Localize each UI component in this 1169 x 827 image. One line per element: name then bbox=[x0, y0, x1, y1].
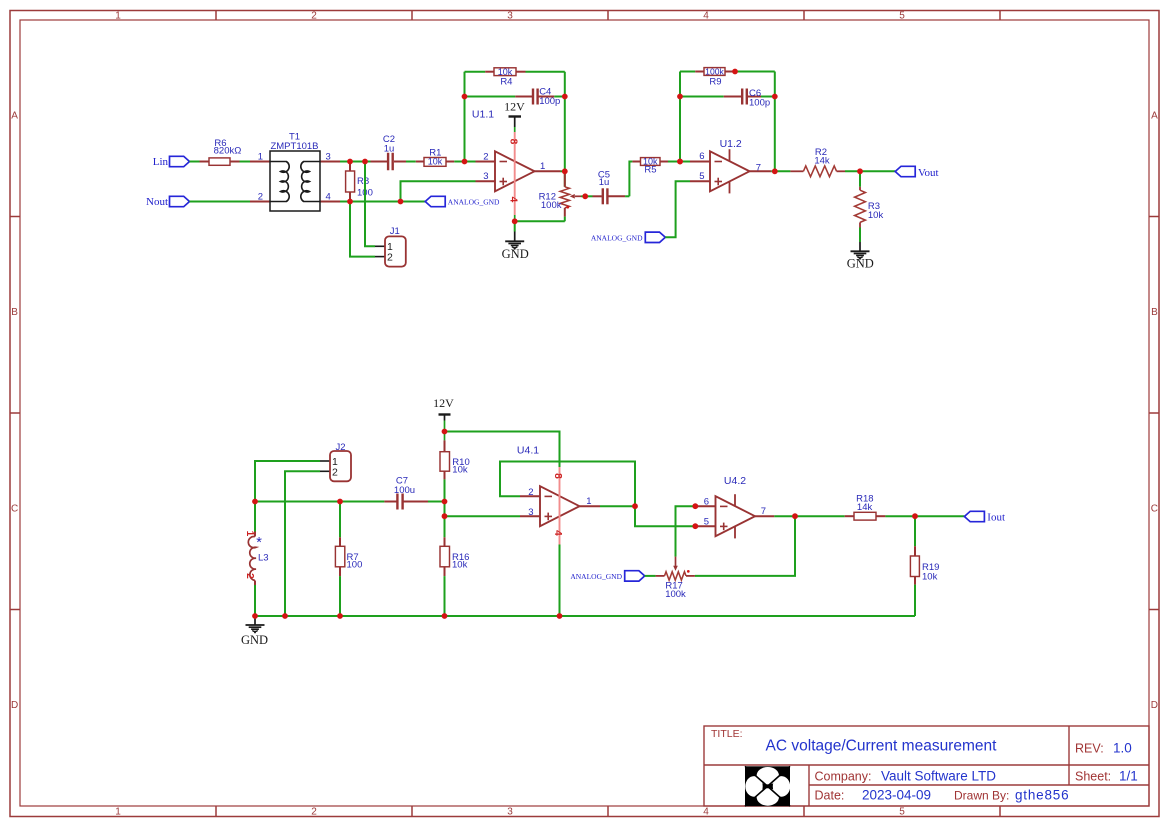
svg-text:Lin: Lin bbox=[153, 156, 169, 168]
resistor R2 bbox=[790, 170, 803, 172]
svg-text:Vout: Vout bbox=[918, 167, 939, 179]
svg-text:Nout: Nout bbox=[146, 196, 168, 208]
resistor R8 bbox=[349, 162, 351, 172]
svg-text:100p: 100p bbox=[539, 96, 560, 107]
svg-text:R5: R5 bbox=[644, 164, 656, 175]
svg-text:2: 2 bbox=[528, 487, 533, 498]
wire bbox=[845, 170, 895, 172]
svg-text:820kΩ: 820kΩ bbox=[214, 145, 242, 156]
svg-text:8: 8 bbox=[552, 473, 563, 479]
node junction bbox=[337, 613, 343, 619]
resistor R10 bbox=[444, 440, 446, 451]
node junction bbox=[677, 94, 683, 100]
wire bbox=[914, 585, 916, 616]
wire bbox=[255, 501, 384, 503]
op-amp U1.1 bbox=[495, 151, 535, 191]
svg-text:1u: 1u bbox=[384, 143, 395, 154]
svg-text:R8: R8 bbox=[357, 176, 369, 187]
ground bbox=[505, 240, 524, 242]
svg-text:100u: 100u bbox=[394, 485, 415, 496]
svg-text:100: 100 bbox=[347, 559, 363, 570]
svg-text:Date:: Date: bbox=[815, 788, 845, 802]
wire bbox=[859, 228, 861, 243]
node junction bbox=[462, 94, 468, 100]
node junction bbox=[732, 69, 738, 75]
wire bbox=[500, 462, 695, 527]
wire bbox=[444, 479, 446, 501]
svg-text:ANALOG_GND: ANALOG_GND bbox=[448, 198, 500, 207]
wire bbox=[190, 201, 251, 203]
svg-text:R4: R4 bbox=[500, 76, 512, 87]
node junction bbox=[857, 168, 863, 174]
node junction bbox=[677, 159, 683, 165]
node junction bbox=[398, 199, 404, 205]
op-amp U4.2 pin 6 bbox=[695, 505, 715, 507]
svg-text:Company:: Company: bbox=[815, 769, 872, 783]
wire bbox=[190, 161, 251, 163]
svg-text:3: 3 bbox=[326, 151, 331, 162]
svg-text:C: C bbox=[11, 504, 18, 515]
ground bbox=[246, 624, 265, 626]
node junction bbox=[442, 513, 448, 519]
node junction bbox=[347, 159, 353, 165]
op-amp U1.1 pin 1 output bbox=[535, 170, 561, 172]
transformer T1 ZMPT101B bbox=[250, 161, 270, 163]
svg-text:7: 7 bbox=[756, 162, 761, 173]
svg-text:J2: J2 bbox=[335, 442, 345, 453]
svg-text:10k: 10k bbox=[922, 571, 938, 582]
svg-text:4: 4 bbox=[552, 530, 563, 536]
svg-text:2: 2 bbox=[332, 466, 338, 478]
svg-text:2: 2 bbox=[387, 252, 393, 264]
wire bbox=[401, 181, 476, 201]
node junction bbox=[282, 613, 288, 619]
svg-text:J1: J1 bbox=[390, 226, 400, 237]
resistor R17 potentiometer bbox=[645, 575, 656, 577]
wire feedback top bbox=[465, 71, 486, 73]
svg-text:Vault Software LTD: Vault Software LTD bbox=[881, 768, 996, 783]
wire feedback right vertical bbox=[774, 72, 776, 172]
svg-text:Iout: Iout bbox=[987, 512, 1005, 524]
wire bbox=[340, 201, 425, 203]
svg-text:1: 1 bbox=[244, 531, 255, 537]
op-amp U1.1 pin 8 bbox=[514, 132, 516, 191]
wire bbox=[340, 161, 371, 163]
svg-text:14k: 14k bbox=[814, 156, 830, 167]
node junction bbox=[512, 218, 518, 224]
svg-text:1: 1 bbox=[115, 807, 121, 818]
wire bbox=[350, 202, 375, 257]
wire bbox=[365, 162, 375, 247]
svg-text:U4.2: U4.2 bbox=[724, 475, 746, 487]
svg-text:1: 1 bbox=[540, 161, 545, 172]
node junction bbox=[677, 159, 683, 165]
svg-text:gthe856: gthe856 bbox=[1015, 788, 1069, 803]
net flag ANALOG_GND bbox=[625, 571, 645, 581]
wire feedback left vertical bbox=[679, 72, 681, 162]
svg-text:4: 4 bbox=[507, 197, 518, 203]
wire bbox=[454, 161, 475, 163]
svg-text:100k: 100k bbox=[665, 589, 686, 600]
wire bbox=[665, 181, 690, 237]
op-amp U4.1 pin 2 bbox=[520, 495, 540, 497]
node junction bbox=[772, 168, 778, 174]
node junction bbox=[347, 199, 353, 205]
svg-text:10k: 10k bbox=[452, 465, 468, 476]
node junction bbox=[442, 613, 448, 619]
port Vout bbox=[895, 166, 915, 176]
op-amp U1.2 pin 6 bbox=[690, 161, 710, 163]
svg-text:GND: GND bbox=[847, 256, 874, 270]
svg-text:3: 3 bbox=[528, 507, 533, 518]
op-amp U4.2 pin 5 bbox=[695, 525, 715, 527]
wire bbox=[285, 471, 320, 616]
svg-text:A: A bbox=[11, 111, 18, 122]
svg-text:8: 8 bbox=[507, 139, 518, 145]
svg-text:L3: L3 bbox=[258, 552, 269, 563]
svg-text:ZMPT101B: ZMPT101B bbox=[270, 141, 318, 152]
wire bbox=[406, 161, 416, 163]
wire bbox=[339, 576, 341, 616]
capacitor C7 bbox=[384, 501, 396, 503]
resistor R7 bbox=[339, 502, 341, 538]
node junction bbox=[772, 94, 778, 100]
svg-text:1u: 1u bbox=[599, 177, 610, 188]
svg-text:5: 5 bbox=[899, 807, 905, 818]
op-amp U4.1 pin 8 bbox=[559, 467, 561, 526]
op-amp U1.1 pin 4 bbox=[514, 191, 516, 215]
svg-text:Drawn By:: Drawn By: bbox=[954, 788, 1009, 802]
op-amp U4.1 bbox=[540, 486, 580, 526]
svg-text:5: 5 bbox=[704, 517, 709, 528]
resistor R3 bbox=[859, 171, 861, 187]
svg-text:12V: 12V bbox=[504, 100, 525, 114]
svg-text:1/1: 1/1 bbox=[1119, 769, 1138, 784]
wire feedback left vertical bbox=[464, 72, 466, 162]
svg-text:AC voltage/Current measurement: AC voltage/Current measurement bbox=[766, 738, 998, 755]
net flag ANALOG_GND bbox=[645, 232, 665, 242]
svg-text:GND: GND bbox=[502, 247, 529, 261]
svg-text:A: A bbox=[1151, 111, 1158, 122]
svg-text:100k: 100k bbox=[705, 67, 724, 77]
logo bbox=[745, 766, 790, 806]
title block bbox=[704, 726, 1149, 806]
port Lin bbox=[170, 156, 190, 166]
ground bbox=[851, 250, 870, 252]
node junction bbox=[692, 503, 698, 509]
wire bbox=[676, 506, 696, 556]
svg-text:C: C bbox=[1151, 504, 1158, 515]
svg-text:5: 5 bbox=[699, 171, 704, 182]
node junction bbox=[337, 499, 343, 505]
op-amp U4.1 pin 3 bbox=[520, 515, 540, 517]
node junction bbox=[792, 513, 798, 519]
capacitor C6 bbox=[680, 96, 724, 98]
svg-text:D: D bbox=[1151, 700, 1158, 711]
svg-text:100p: 100p bbox=[749, 98, 770, 109]
svg-text:2: 2 bbox=[483, 151, 488, 162]
svg-text:R9: R9 bbox=[709, 77, 721, 88]
svg-text:10k: 10k bbox=[868, 210, 884, 221]
wire bbox=[695, 516, 795, 576]
op-amp U1.2 power stubs bbox=[729, 149, 731, 161]
svg-text:U1.1: U1.1 bbox=[472, 109, 494, 121]
op-amp U4.2 bbox=[716, 496, 756, 536]
svg-text:Sheet:: Sheet: bbox=[1075, 770, 1111, 784]
op-amp U1.2 pin 7 output bbox=[750, 170, 772, 172]
resistor R16 bbox=[444, 516, 446, 537]
inductor L3 bbox=[254, 502, 256, 532]
port Iout bbox=[915, 515, 964, 517]
svg-text:REV:: REV: bbox=[1075, 741, 1104, 755]
op-amp U4.1 pin 4 bbox=[559, 526, 561, 545]
node junction bbox=[562, 94, 568, 100]
svg-text:7: 7 bbox=[761, 506, 766, 517]
resistor R18 bbox=[795, 515, 845, 517]
svg-text:6: 6 bbox=[704, 497, 709, 508]
svg-text:D: D bbox=[11, 700, 18, 711]
wire feedback right vertical bbox=[564, 72, 566, 187]
wire bbox=[444, 502, 446, 517]
connector J2 bbox=[320, 460, 330, 462]
svg-text:U4.1: U4.1 bbox=[517, 445, 539, 457]
node junction bbox=[462, 159, 468, 165]
svg-text:3: 3 bbox=[507, 807, 513, 818]
svg-text:1: 1 bbox=[586, 496, 591, 507]
svg-text:B: B bbox=[1151, 307, 1158, 318]
svg-text:2023-04-09: 2023-04-09 bbox=[862, 788, 931, 803]
resistor R19 bbox=[914, 516, 916, 546]
svg-text:4: 4 bbox=[703, 807, 709, 818]
svg-text:1: 1 bbox=[115, 11, 121, 22]
wire bbox=[515, 220, 565, 222]
resistor R6 bbox=[200, 161, 210, 163]
wire bbox=[444, 576, 446, 616]
wire bbox=[255, 461, 320, 502]
resistor R5 bbox=[632, 161, 640, 163]
node junction bbox=[362, 159, 368, 165]
svg-text:12V: 12V bbox=[433, 396, 454, 410]
node junction bbox=[442, 429, 448, 435]
svg-text:10k: 10k bbox=[498, 67, 513, 77]
wire bbox=[885, 515, 915, 517]
svg-text:B: B bbox=[11, 307, 18, 318]
svg-text:3: 3 bbox=[507, 11, 513, 22]
svg-text:GND: GND bbox=[241, 633, 268, 647]
op-amp U1.2 pin 5 bbox=[690, 180, 710, 182]
resistor R4 bbox=[485, 71, 494, 73]
svg-text:*: * bbox=[256, 535, 262, 551]
wire bbox=[668, 161, 690, 163]
node junction bbox=[442, 499, 448, 505]
svg-text:4: 4 bbox=[703, 11, 709, 22]
node junction bbox=[252, 613, 258, 619]
svg-text:10k: 10k bbox=[452, 559, 468, 570]
node junction bbox=[557, 613, 563, 619]
svg-text:R1: R1 bbox=[429, 147, 441, 158]
svg-text:2: 2 bbox=[258, 191, 263, 202]
wire bbox=[735, 71, 775, 73]
node junction wiper bbox=[582, 193, 588, 199]
svg-text:2: 2 bbox=[244, 573, 255, 579]
capacitor C4 bbox=[465, 96, 516, 98]
svg-text:ANALOG_GND: ANALOG_GND bbox=[570, 572, 622, 581]
svg-text:100k: 100k bbox=[541, 200, 562, 211]
wire feedback top bbox=[680, 71, 695, 73]
node junction bbox=[632, 503, 638, 509]
svg-text:4: 4 bbox=[326, 191, 331, 202]
op-amp U1.2 bbox=[710, 151, 750, 191]
op-amp U1.1 pin 2 bbox=[476, 161, 496, 163]
wire bbox=[445, 515, 521, 517]
wire ground rail bbox=[255, 615, 915, 617]
wire bbox=[445, 432, 560, 468]
svg-text:2: 2 bbox=[311, 807, 317, 818]
svg-text:U1.2: U1.2 bbox=[720, 138, 742, 150]
capacitor C5 bbox=[585, 195, 592, 197]
svg-text:ANALOG_GND: ANALOG_GND bbox=[591, 234, 643, 243]
svg-text:6: 6 bbox=[699, 151, 704, 162]
capacitor C2 bbox=[371, 161, 388, 163]
wire bbox=[629, 162, 632, 197]
net flag ANALOG_GND bbox=[425, 196, 445, 206]
resistor R12 potentiometer bbox=[564, 171, 566, 187]
connector J1 bbox=[375, 245, 385, 247]
svg-text:2: 2 bbox=[311, 11, 317, 22]
wire bbox=[526, 71, 565, 73]
op-amp U4.2 pin 7 output bbox=[755, 515, 774, 517]
resistor R1 bbox=[416, 161, 424, 163]
node junction bbox=[692, 523, 698, 529]
svg-text:3: 3 bbox=[483, 171, 488, 182]
port Nout bbox=[170, 196, 190, 206]
resistor R9 bbox=[695, 71, 704, 73]
svg-text:14k: 14k bbox=[857, 502, 873, 513]
op-amp U1.1 pin 3 bbox=[476, 180, 496, 182]
svg-text:TITLE:: TITLE: bbox=[711, 728, 743, 740]
op-amp U4.1 pin 1 output bbox=[580, 505, 601, 507]
svg-text:1.0: 1.0 bbox=[1113, 740, 1132, 755]
svg-text:1: 1 bbox=[258, 151, 263, 162]
node junction output U1.1 bbox=[562, 168, 568, 174]
op-amp U4.2 power stubs bbox=[734, 494, 736, 506]
node junction bbox=[252, 499, 258, 505]
node junction bbox=[912, 513, 918, 519]
svg-text:5: 5 bbox=[899, 11, 905, 22]
